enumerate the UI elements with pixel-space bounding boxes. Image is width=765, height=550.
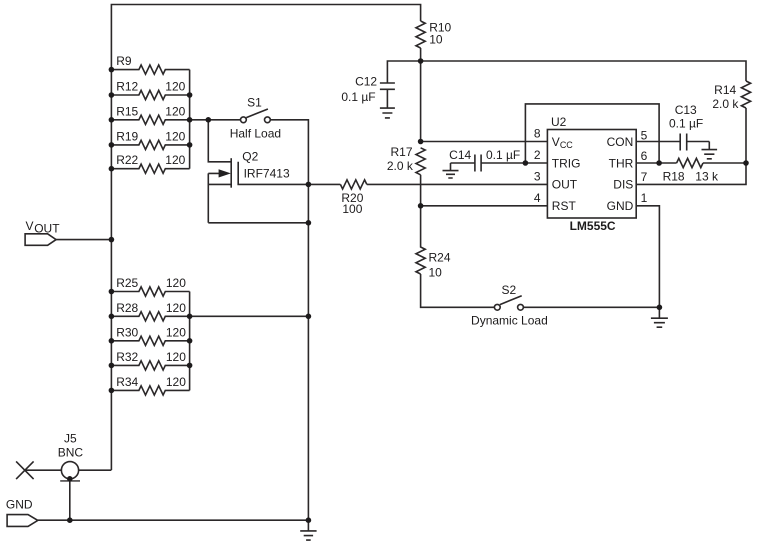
wire: VOUT to left bus	[56, 239, 111, 241]
svg-text:R22: R22	[116, 153, 138, 167]
svg-text:Half Load: Half Load	[230, 126, 281, 140]
svg-text:R32: R32	[116, 350, 138, 364]
svg-text:CON: CON	[607, 135, 634, 149]
svg-text:2.0 k: 2.0 k	[712, 97, 739, 111]
svg-text:7: 7	[641, 170, 648, 184]
wire: OUT pin 3 to gate node	[367, 183, 548, 185]
wire: CON pin 5 to C13	[636, 141, 680, 143]
svg-text:8: 8	[534, 127, 541, 141]
svg-text:10: 10	[429, 266, 443, 280]
wire: lower bank right bus	[189, 292, 191, 391]
svg-text:120: 120	[165, 153, 185, 167]
resistor R32	[111, 361, 189, 370]
resistor R19	[111, 140, 189, 149]
svg-text:BNC: BNC	[58, 446, 84, 460]
wire: VCC pin 8	[421, 141, 548, 143]
wire: Q2 source to rail	[208, 222, 308, 224]
svg-text:V: V	[26, 219, 34, 233]
wire: upper bank node to switch S1	[190, 119, 241, 121]
svg-text:Dynamic Load: Dynamic Load	[471, 313, 548, 327]
wire: BNC shield to GND wire	[69, 479, 71, 520]
node dots: bank right buses	[187, 92, 193, 98]
resistor R24	[416, 206, 425, 274]
node dots: drain rail	[306, 182, 312, 188]
svg-text:R18: R18	[663, 170, 685, 184]
wire: R18 to R14 bottom node	[703, 162, 746, 164]
svg-text:10: 10	[429, 33, 443, 47]
svg-text:2.0 k: 2.0 k	[387, 159, 414, 173]
ground (main rail)	[300, 520, 316, 540]
wire: node to C12	[387, 61, 420, 83]
IC U2 LM555C box	[547, 130, 636, 219]
svg-text:THR: THR	[609, 156, 634, 170]
resistor R14	[741, 81, 750, 108]
node dots: TRIG and THR	[523, 160, 529, 166]
svg-text:2: 2	[534, 148, 541, 162]
resistor R25	[111, 287, 189, 296]
resistor R22	[111, 164, 189, 173]
svg-text:R12: R12	[116, 80, 138, 94]
connector J5 BNC	[16, 461, 33, 479]
wire: GND pin 1 to ground node	[636, 206, 659, 307]
wire: GND bus along bottom	[38, 519, 309, 521]
ground (S2 / U2 GND)	[651, 307, 668, 327]
BNC shield bar	[60, 480, 80, 482]
resistor R20	[340, 180, 366, 189]
resistor R18	[677, 158, 703, 167]
svg-text:TRIG: TRIG	[552, 156, 581, 170]
node dot: Q2 drain tap	[206, 117, 212, 123]
wire: THR pin 6 to R18	[636, 162, 676, 164]
wire: R24 bottom to switch S2	[421, 274, 495, 307]
transistor Q2 drain lead	[208, 120, 231, 162]
resistor R9	[111, 65, 189, 74]
svg-text:4: 4	[534, 191, 541, 205]
node dots: R10/VCC/RST column	[418, 58, 424, 64]
svg-text:R30: R30	[116, 325, 138, 339]
svg-text:100: 100	[342, 202, 362, 216]
svg-text:OUT: OUT	[552, 178, 578, 192]
svg-text:LM555C: LM555C	[570, 219, 616, 233]
wire: X to BNC	[25, 469, 61, 471]
svg-text:IRF7413: IRF7413	[244, 166, 290, 180]
resistor R10	[416, 21, 425, 48]
wire: top bus from left bus to R10	[111, 5, 420, 471]
svg-text:J5: J5	[64, 432, 77, 446]
switch S1 Half Load	[241, 117, 247, 123]
ground (C14)	[443, 163, 459, 178]
svg-text:Q2: Q2	[242, 150, 258, 164]
svg-text:R24: R24	[429, 251, 451, 265]
svg-text:5: 5	[641, 128, 648, 142]
ground (C13)	[702, 142, 718, 159]
connector GND	[7, 515, 38, 527]
svg-text:0.1 µF: 0.1 µF	[486, 148, 520, 162]
svg-text:RST: RST	[552, 199, 577, 213]
svg-text:0.1 µF: 0.1 µF	[669, 117, 703, 131]
svg-text:R25: R25	[116, 276, 138, 290]
capacitor C13	[680, 134, 709, 151]
svg-text:R15: R15	[116, 104, 138, 118]
svg-text:R34: R34	[116, 375, 138, 389]
node dots: left bus	[109, 67, 115, 73]
svg-text:S1: S1	[247, 96, 262, 110]
connector VOUT	[25, 234, 56, 246]
capacitor C14	[451, 155, 482, 172]
wire: BNC to left bus corner	[79, 469, 112, 471]
wire: node to R14 top	[421, 61, 746, 81]
svg-text:DIS: DIS	[613, 178, 633, 192]
resistor R34	[111, 386, 189, 395]
wire: upper bank right bus	[189, 70, 191, 169]
switch S2 Dynamic Load	[494, 304, 500, 310]
wire: S1 to drain rail	[270, 120, 308, 520]
svg-text:GND: GND	[6, 498, 33, 512]
capacitor C12	[380, 83, 395, 108]
node dot: S2 ground node	[657, 305, 663, 311]
svg-text:U2: U2	[551, 115, 567, 129]
svg-text:120: 120	[165, 104, 185, 118]
svg-text:120: 120	[166, 375, 186, 389]
transistor Q2 source lead with body arrow	[208, 173, 231, 222]
svg-text:120: 120	[166, 350, 186, 364]
wire: S2 to ground node	[524, 306, 660, 308]
svg-text:R14: R14	[714, 83, 736, 97]
svg-text:1: 1	[641, 191, 648, 205]
svg-text:R19: R19	[116, 129, 138, 143]
svg-text:3: 3	[534, 169, 541, 183]
svg-text:0.1 µF: 0.1 µF	[341, 90, 375, 104]
wire: RST pin 4	[421, 205, 548, 207]
svg-text:6: 6	[641, 149, 648, 163]
resistor R12	[111, 90, 189, 99]
resistor R28	[111, 312, 189, 321]
svg-text:120: 120	[166, 301, 186, 315]
wire: R20 to 4-way gate junction	[308, 183, 340, 185]
ground (C12)	[380, 108, 395, 118]
wire: R17 bottom to RST node	[420, 175, 422, 206]
wire: TRIG-THR jumper over U2	[525, 104, 659, 163]
svg-text:S2: S2	[502, 283, 517, 297]
svg-text:R28: R28	[116, 301, 138, 315]
svg-text:120: 120	[165, 129, 185, 143]
svg-text:C14: C14	[449, 148, 471, 162]
svg-text:13 k: 13 k	[695, 170, 719, 184]
svg-text:120: 120	[165, 80, 185, 94]
resistor R15	[111, 115, 189, 124]
resistor R30	[111, 336, 189, 345]
wire: R14 bottom through THR node to DIS pin	[636, 108, 746, 184]
svg-text:C12: C12	[355, 75, 377, 89]
transistor Q2 gate bar and gate lead	[238, 162, 308, 185]
svg-text:OUT: OUT	[34, 222, 60, 236]
svg-text:R17: R17	[390, 145, 412, 159]
wire: lower bank node to rail	[190, 315, 309, 317]
wire: R10 bottom to VCC node	[420, 48, 422, 142]
svg-text:C13: C13	[675, 103, 697, 117]
svg-text:GND: GND	[607, 199, 634, 213]
transistor Q2 channel bar	[230, 158, 232, 188]
node dots: BNC	[67, 476, 73, 482]
resistor R17	[416, 148, 425, 175]
svg-text:R9: R9	[116, 54, 132, 68]
wire: TRIG pin 2	[481, 162, 547, 164]
svg-text:120: 120	[166, 276, 186, 290]
svg-text:120: 120	[166, 325, 186, 339]
